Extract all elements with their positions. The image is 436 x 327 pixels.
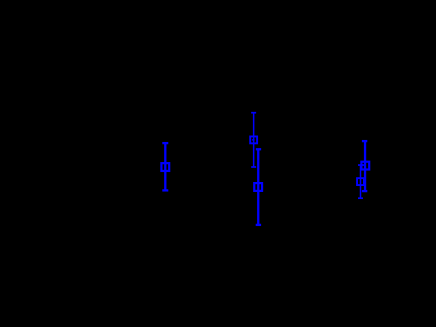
series 2 point 2 square marker (357, 178, 364, 185)
series 2 (thin blue) point 1 error bar at x=253.6 (251, 113, 256, 167)
series 1 point 2 square marker (254, 183, 262, 191)
series 1 point 3 square marker (361, 162, 369, 170)
series 1 (thick blue) point 2 error bar at x=258 (256, 149, 261, 225)
series 2 point 1 tiny x-error tick (252, 139, 255, 140)
series 1 (thick blue) point 1 error bar at x=165 (162, 143, 168, 190)
series 1 point 3 tiny x-error tick (362, 164, 365, 166)
series 2 (thin blue) point 2 error bar at x=360.5 (358, 165, 363, 198)
series 2 point 1 square marker (250, 136, 257, 143)
series 1 (thick blue) point 3 error bar at x=365 (362, 141, 367, 191)
series 1 point 1 square marker (161, 163, 169, 171)
